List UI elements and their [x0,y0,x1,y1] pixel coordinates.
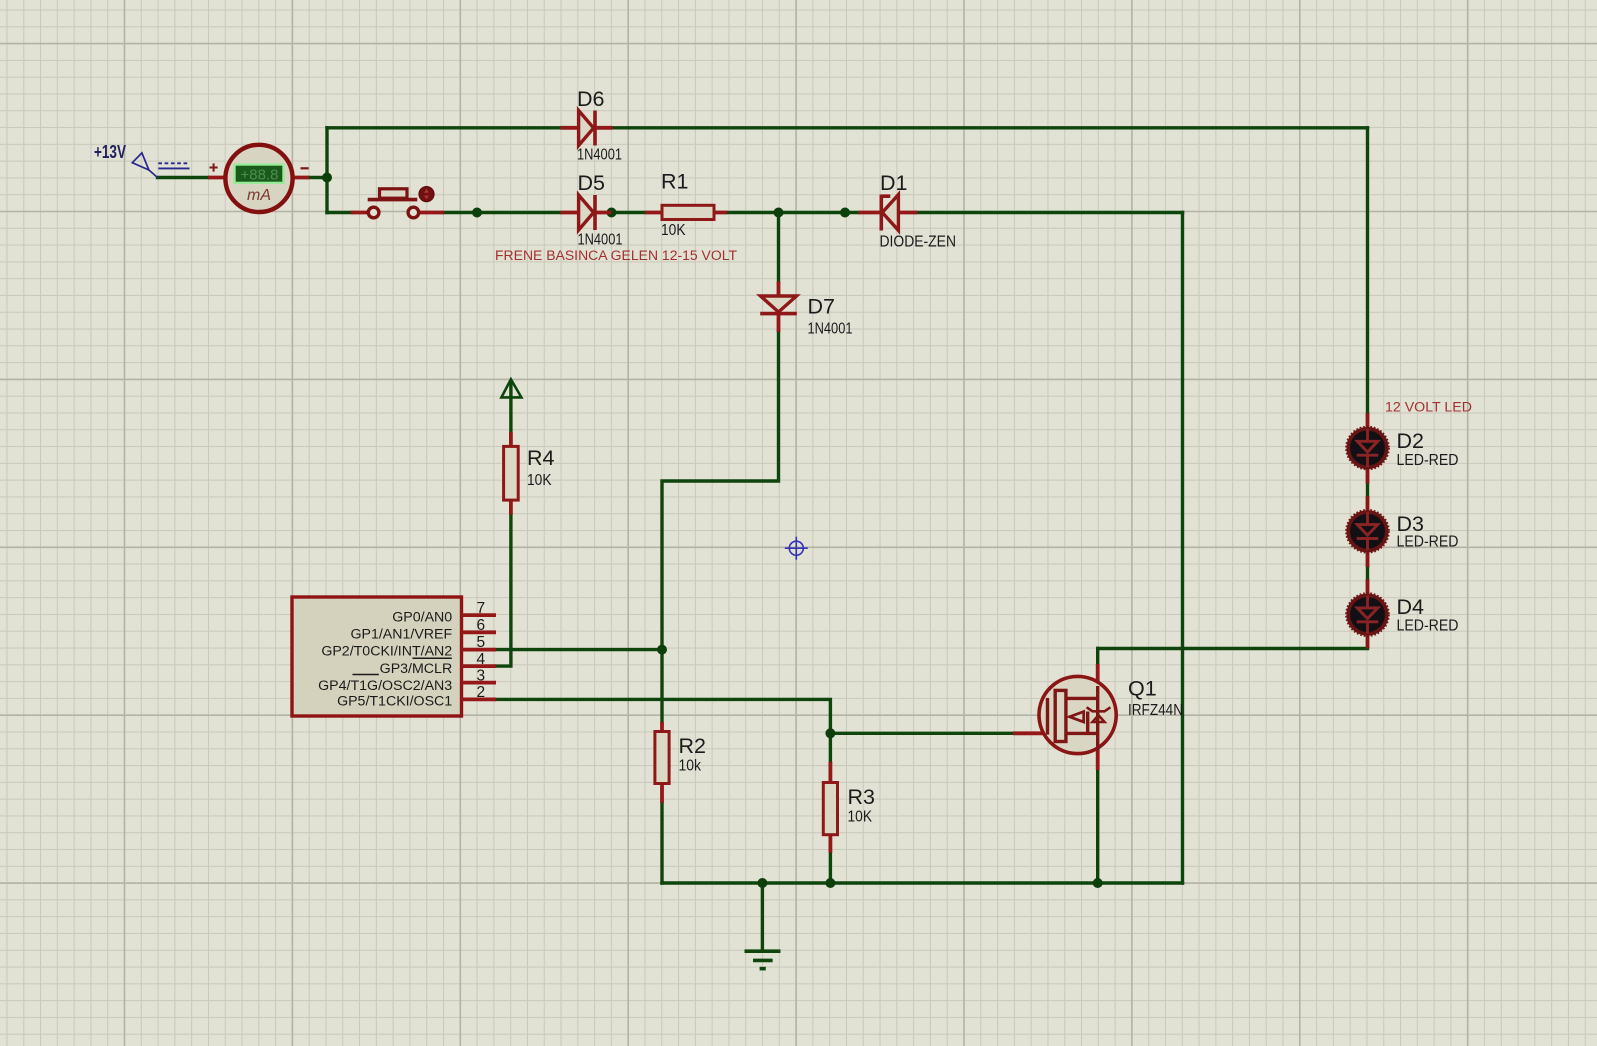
ammeter pin stubs [208,176,309,180]
wire D1 to right [917,211,1183,214]
switch contact right [408,207,419,218]
svg-text:+13V: +13V [94,141,126,162]
power-up terminal above R4 [501,379,521,397]
svg-text:mA: mA [247,187,271,204]
svg-text:D7: D7 [808,295,835,319]
transistor Q1 internal symbol [1048,686,1111,750]
svg-text:1N4001: 1N4001 [578,232,623,249]
transistor Q1 gate stub [1013,731,1048,735]
wire ground stem [761,883,764,950]
svg-text:D1: D1 [880,171,907,195]
origin crosshair marker [785,537,808,560]
svg-text:1N4001: 1N4001 [577,147,622,164]
wire D7 cathode down and left to R2 column [662,332,779,722]
ammeter minus sign [301,167,309,169]
MCU U1 body [292,597,462,716]
resistor R4 [504,432,519,515]
wire D5 to R1 [612,211,646,214]
LED D2 [1346,413,1389,484]
switch actuator [380,189,408,198]
svg-text:R1: R1 [661,170,688,194]
T1G overline [353,674,379,676]
wire D3 to D4 [1366,567,1369,579]
svg-text:D4: D4 [1397,595,1425,619]
svg-text:R4: R4 [527,446,555,470]
node pin5/R2 [657,645,667,655]
wire Q1 source down [1096,770,1099,883]
transistor Q1 drain/source pins [1096,664,1100,770]
svg-text:5: 5 [477,634,486,651]
resistor R3 [823,762,837,853]
svg-text:10K: 10K [661,222,686,239]
svg-text:LED-RED: LED-RED [1397,618,1459,635]
wire Q1 drain up [1096,649,1099,666]
wire gate node down to R3 [829,733,832,762]
wire node A vertical [325,128,328,213]
node D1-in [840,208,850,218]
wire node A to switch [327,211,351,214]
node switch-out [472,208,482,218]
svg-text:D2: D2 [1397,429,1424,453]
svg-text:10K: 10K [527,472,552,489]
wire R1 to D1 [727,211,859,214]
wire D6 to right rail [613,126,1368,129]
transistor Q1 body [1039,676,1116,753]
ground rail [662,881,1183,884]
wire node B down to D7 [777,213,780,282]
svg-text:GP3/MCLR: GP3/MCLR [380,661,453,677]
wire MCU pin5 to R2 column [496,648,662,651]
svg-text:7: 7 [477,600,486,617]
svg-text:LED-RED: LED-RED [1397,534,1459,551]
wire switch to D5 [444,211,561,214]
ammeter plus sign [210,163,218,171]
wire top rail to D6 [327,126,561,129]
diode D6 [561,111,613,146]
svg-text:Q1: Q1 [1128,676,1157,700]
switch bar [368,198,418,202]
wire D4 bottom to Q1 drain [1098,647,1368,650]
svg-text:DIODE-ZEN: DIODE-ZEN [880,233,957,250]
node R3-gnd [825,878,835,888]
svg-text:R2: R2 [679,734,706,758]
svg-text:GP4/T1G/OSC2/AN3: GP4/T1G/OSC2/AN3 [318,678,452,694]
svg-text:D5: D5 [578,171,606,195]
svg-text:GP0/AN0: GP0/AN0 [392,609,452,625]
switch toggle ball [419,187,434,202]
LED D3 [1346,496,1389,567]
svg-text:4: 4 [477,651,486,668]
node Q1 source-gnd [1093,878,1103,888]
MCLR overline [413,657,452,659]
ammeter LCD [233,163,284,184]
wire R3 bottom to ground rail [829,853,832,883]
resistor R2 [655,722,669,803]
switch pin stubs [351,211,444,215]
svg-text:2: 2 [477,684,486,701]
ground symbol [745,951,781,968]
switch contact left [368,207,379,218]
svg-text:D6: D6 [577,87,605,111]
wire D1 branch down [1181,213,1184,884]
wire battery to ammeter [158,176,209,179]
battery B1 [158,163,189,168]
svg-text:3: 3 [477,667,486,684]
node D5-out [607,208,617,218]
svg-text:GP5/T1CKI/OSC1: GP5/T1CKI/OSC1 [337,693,452,709]
ammeter body [225,145,292,212]
wire gate node to Q1 gate [830,732,1013,735]
node ammeter-out [322,173,332,183]
MCU pin labels [318,609,452,709]
MCU pin numbers [477,600,486,701]
svg-text:R3: R3 [848,785,876,809]
svg-text:GP2/T0CKI/INT/AN2: GP2/T0CKI/INT/AN2 [321,644,452,660]
svg-text:1N4001: 1N4001 [808,321,853,338]
wire MCU pin4 to R4 [496,515,511,667]
LED D4 [1346,579,1389,648]
MCU pin stubs [462,615,497,699]
diode D5 [561,195,612,230]
wire MCU pin2 to gate node [496,699,830,733]
svg-text:LED-RED: LED-RED [1397,452,1459,469]
svg-text:6: 6 [477,617,486,634]
diode D7 [760,282,797,333]
wire right rail down to D2 [1366,128,1369,413]
wire ammeter minus to node A [309,176,327,179]
svg-text:12 VOLT LED: 12 VOLT LED [1385,400,1472,416]
svg-text:FRENE BASINCA GELEN 12-15 VOLT: FRENE BASINCA GELEN 12-15 VOLT [495,248,737,264]
svg-text:IRFZ44N: IRFZ44N [1128,702,1183,719]
svg-text:GP1/AN1/VREF: GP1/AN1/VREF [350,627,452,643]
node ground [757,878,767,888]
svg-text:10K: 10K [848,809,873,826]
node gate [825,728,835,738]
svg-text:10k: 10k [679,758,702,775]
power terminal +13V [132,153,157,178]
resistor R1 [645,205,727,219]
wire R4 top to power terminal [509,382,512,433]
wire R2 bottom to ground rail [660,803,663,883]
svg-text:D3: D3 [1397,512,1425,536]
svg-text:+88.8: +88.8 [241,167,279,184]
node B R1-out/D7 [774,208,784,218]
diode D1 zener [859,195,918,231]
wire D2 to D3 [1366,484,1369,497]
